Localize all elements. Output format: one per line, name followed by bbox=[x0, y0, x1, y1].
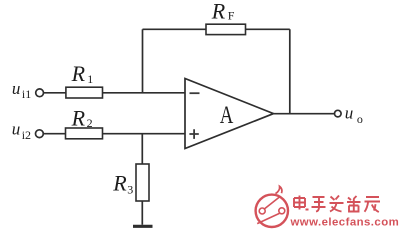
svg-text:u: u bbox=[12, 79, 21, 98]
wire output bbox=[274, 113, 335, 115]
svg-text:u: u bbox=[345, 103, 354, 122]
ground bbox=[133, 225, 153, 228]
resistor R1 bbox=[66, 87, 103, 98]
svg-text:2: 2 bbox=[87, 116, 93, 130]
op-amp minus sign bbox=[190, 92, 200, 94]
op-amp plus sign bbox=[189, 129, 198, 139]
wire feedback right vertical bbox=[289, 29, 291, 113]
wire feedback left vertical bbox=[142, 29, 144, 93]
wire row1 input to inverting input bbox=[43, 92, 185, 94]
resistor R3 bbox=[136, 164, 149, 201]
svg-text:www.elecfans.com: www.elecfans.com bbox=[290, 216, 400, 228]
op-amp U1 triangle bbox=[185, 79, 274, 149]
wire top feedback horizontal bbox=[143, 28, 290, 30]
terminal uo bbox=[335, 110, 342, 117]
wire R3 branch vertical bbox=[141, 134, 143, 225]
svg-text:o: o bbox=[357, 112, 363, 126]
svg-text:i2: i2 bbox=[22, 128, 31, 142]
svg-text:u: u bbox=[12, 120, 21, 139]
resistor RF bbox=[206, 24, 246, 34]
svg-text:3: 3 bbox=[127, 183, 133, 197]
svg-text:F: F bbox=[228, 9, 235, 23]
svg-text:A: A bbox=[220, 102, 234, 129]
svg-text:R: R bbox=[71, 105, 86, 130]
svg-text:R: R bbox=[71, 61, 86, 86]
watermark logo circle bbox=[256, 186, 288, 227]
wire row2 input to non-inverting input bbox=[43, 133, 185, 135]
terminal ui1 bbox=[36, 89, 44, 97]
resistor R2 bbox=[66, 128, 103, 139]
svg-text:R: R bbox=[112, 171, 127, 196]
svg-text:i1: i1 bbox=[22, 87, 31, 101]
watermark text 电子发烧友 (stylized strokes) bbox=[294, 196, 380, 213]
terminal ui2 bbox=[36, 130, 44, 138]
svg-text:1: 1 bbox=[87, 72, 93, 86]
svg-text:R: R bbox=[211, 0, 226, 24]
